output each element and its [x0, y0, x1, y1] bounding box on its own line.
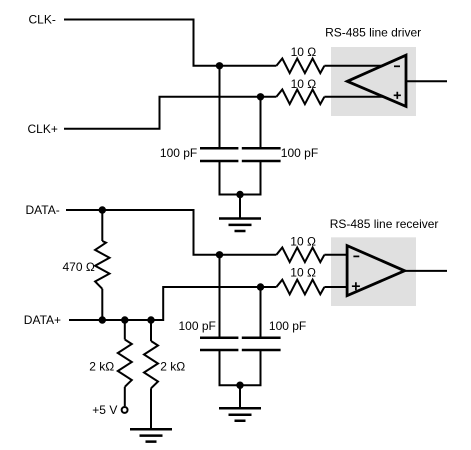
label C2 value 100 pF: [281, 146, 318, 160]
op-amp U2 triangle (points right): [347, 246, 405, 296]
label R6 value 10 ohm: [290, 266, 316, 280]
label +5 V: [92, 403, 117, 417]
wire C2 top lead: [260, 97, 262, 147]
svg-text:RS-485 line receiver: RS-485 line receiver: [330, 217, 439, 231]
+5 V supply terminal circle: [122, 407, 128, 413]
op-amp U1 RS-485 line driver shaded box: [331, 47, 416, 116]
wire R3 bottom lead: [101, 289, 103, 320]
svg-text:100 pF: 100 pF: [269, 319, 306, 333]
svg-text:DATA-: DATA-: [26, 203, 60, 217]
capacitor C4 100 pF: [242, 338, 281, 350]
resistor R4a 2 kohm (vertical): [118, 340, 132, 387]
label C4 value 100 pF: [269, 319, 306, 333]
U1 non-inverting input marker +: [394, 92, 401, 99]
label RS-485 line driver: [325, 26, 421, 40]
wire R6 to U2 non-inverting input: [324, 286, 347, 288]
svg-text:CLK-: CLK-: [29, 13, 56, 27]
svg-text:10 Ω: 10 Ω: [291, 77, 317, 91]
svg-text:10 Ω: 10 Ω: [291, 45, 317, 59]
junction DATA- branch / C3: [216, 251, 223, 258]
svg-text:470 Ω: 470 Ω: [63, 260, 95, 274]
resistor R3 470 ohm (vertical): [95, 241, 109, 289]
resistor R5 10 ohm: [276, 248, 324, 263]
label R2 value 10 ohm: [291, 77, 317, 91]
label R5 value 10 ohm: [290, 234, 316, 248]
resistor R1 10 ohm: [276, 59, 324, 74]
label C3 value 100 pF: [179, 319, 216, 333]
ground (pulldown resistor): [130, 429, 172, 441]
U1 inverting input marker -: [394, 65, 400, 67]
node CLK-: [29, 13, 56, 27]
wire C3 top lead: [219, 255, 221, 337]
svg-text:10 Ω: 10 Ω: [290, 266, 316, 280]
resistor R2 10 ohm: [276, 90, 324, 105]
junction C3/C4 ground node: [236, 382, 243, 389]
wire R4b bottom lead: [150, 388, 152, 428]
capacitor C3 100 pF: [200, 338, 238, 350]
wire CLK+ to R2: [64, 97, 276, 129]
svg-text:RS-485 line driver: RS-485 line driver: [325, 26, 421, 40]
junction DATA- / R3: [99, 206, 106, 213]
U2 inverting input marker -: [353, 255, 359, 257]
op-amp U1 triangle (points left): [347, 55, 406, 106]
wire R1 to U1 inverting input: [324, 65, 382, 67]
svg-text:DATA+: DATA+: [24, 313, 61, 327]
capacitor C2 100 pF: [242, 148, 281, 161]
junction DATA+ / R4b: [147, 316, 154, 323]
wire C1/C2 bottom join: [220, 162, 261, 218]
label R1 value 10 ohm: [291, 45, 317, 59]
capacitor C1 100 pF: [200, 148, 238, 161]
wire R5 to U2 inverting input: [324, 254, 347, 256]
wire U1 output: [406, 80, 447, 82]
svg-text:100 pF: 100 pF: [179, 319, 216, 333]
wire U2 output: [405, 270, 447, 272]
node DATA-: [26, 203, 60, 217]
wire CLK- to R1: [64, 20, 276, 66]
wire C4 top lead: [260, 287, 262, 337]
wire R4a bottom lead: [124, 387, 126, 406]
svg-text:100 pF: 100 pF: [160, 146, 197, 160]
wire DATA- to R5: [66, 210, 276, 255]
wire R4a top lead: [124, 320, 126, 340]
svg-text:10 Ω: 10 Ω: [290, 234, 316, 248]
junction CLK- / C1: [216, 62, 223, 69]
junction DATA+ / R4a: [121, 316, 128, 323]
svg-text:100 pF: 100 pF: [281, 146, 318, 160]
wire C3/C4 bottom join: [220, 351, 261, 408]
label R3 value 470 ohm: [63, 260, 95, 274]
node CLK+: [28, 122, 58, 136]
ground (capacitor section bottom): [219, 408, 261, 421]
junction DATA+ branch / C4: [257, 283, 264, 290]
junction C1/C2 ground node: [236, 191, 243, 198]
label R4a value 2 kohm: [89, 360, 114, 374]
svg-text:+5 V: +5 V: [92, 403, 117, 417]
wire C1 top lead: [219, 66, 221, 147]
wire R3 top lead: [101, 210, 103, 241]
label RS-485 line receiver: [330, 217, 439, 231]
svg-text:2 kΩ: 2 kΩ: [89, 360, 114, 374]
wire R4b top lead: [150, 320, 152, 341]
op-amp U2 RS-485 line receiver shaded box: [331, 237, 416, 306]
resistor R4b 2 kohm (vertical): [144, 341, 158, 388]
resistor R6 10 ohm: [276, 280, 324, 295]
wire DATA+ to R6: [69, 287, 276, 320]
wire R2 to U1 non-inverting input: [324, 96, 383, 98]
U2 non-inverting input marker +: [352, 282, 360, 290]
ground (top section): [219, 219, 261, 232]
label C1 value 100 pF: [160, 146, 197, 160]
node DATA+: [24, 313, 61, 327]
svg-text:CLK+: CLK+: [28, 122, 58, 136]
svg-text:2 kΩ: 2 kΩ: [160, 360, 185, 374]
junction CLK+ / C2: [257, 93, 264, 100]
junction DATA+ / R3: [99, 316, 106, 323]
label R4b value 2 kohm: [160, 360, 185, 374]
